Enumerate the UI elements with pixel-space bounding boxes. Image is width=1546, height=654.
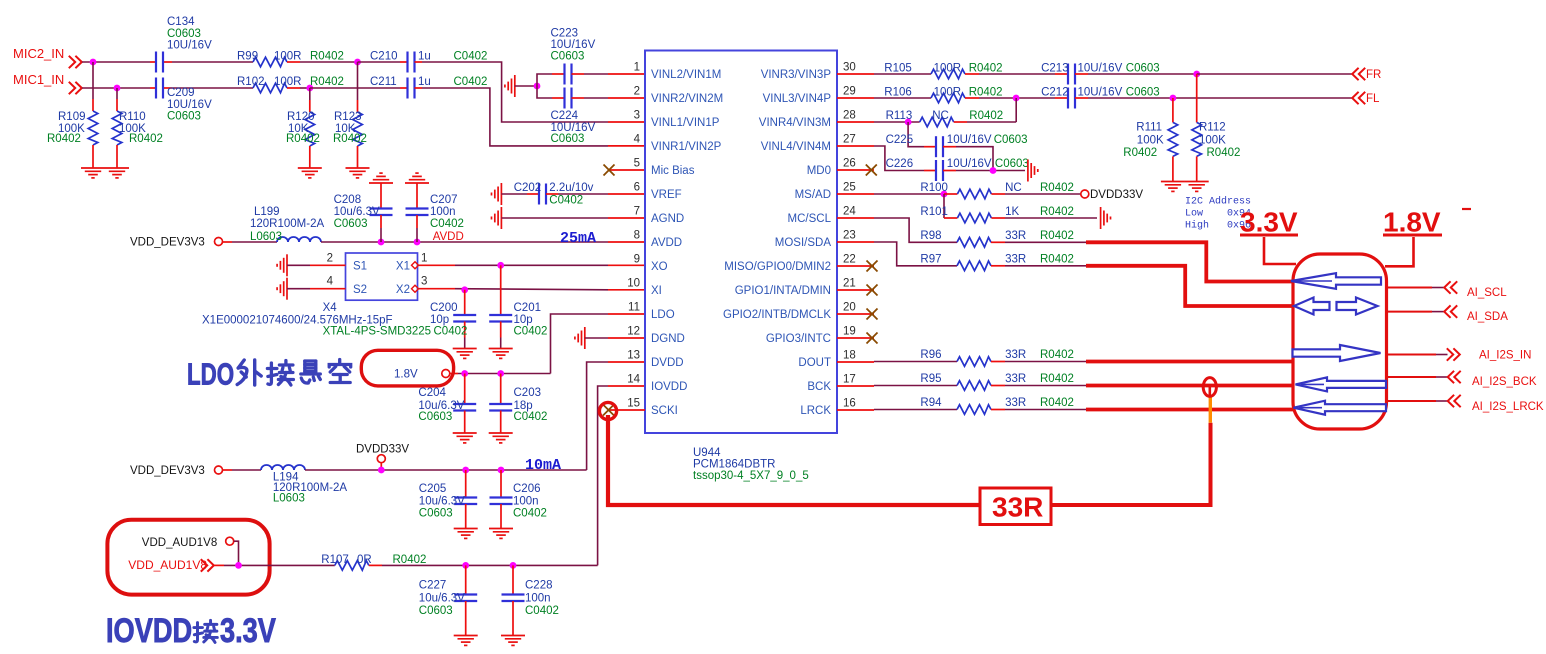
svg-text:R112: R112	[1199, 122, 1226, 134]
ground R101	[1101, 207, 1111, 229]
svg-text:AI_I2S_IN: AI_I2S_IN	[1479, 350, 1531, 362]
wire DVDD rail	[305, 469, 587, 471]
svg-text:30: 30	[843, 62, 856, 74]
svg-text:NC: NC	[932, 110, 949, 122]
resistor 33R callout box	[980, 488, 1051, 525]
svg-text:22: 22	[843, 254, 856, 266]
svg-text:R0402: R0402	[286, 133, 320, 145]
port LDO 1.8V circle	[442, 370, 450, 378]
pin 3 X4	[418, 288, 455, 290]
svg-text:10U/16V: 10U/16V	[167, 99, 212, 111]
ground C228	[501, 636, 525, 646]
svg-text:1K: 1K	[1005, 206, 1019, 218]
svg-text:L0603: L0603	[250, 231, 282, 243]
node XO C201	[497, 262, 504, 269]
svg-text:R97: R97	[920, 254, 941, 266]
svg-text:2.2u/10v: 2.2u/10v	[549, 182, 593, 194]
inductor L194	[261, 465, 305, 470]
leader 3.3V	[1264, 237, 1296, 264]
capacitor C208	[380, 183, 382, 209]
svg-text:C0402: C0402	[430, 218, 464, 230]
svg-text:DVDD33V: DVDD33V	[1090, 189, 1143, 201]
svg-text:C203: C203	[514, 387, 542, 399]
ground R123	[346, 168, 370, 178]
ground R111	[1161, 182, 1185, 192]
svg-text:C223: C223	[551, 28, 579, 40]
capacitor C225	[924, 146, 936, 148]
svg-text:11: 11	[628, 302, 640, 314]
wire VDD to L199	[223, 241, 233, 243]
wire MIC2_IN net	[82, 61, 150, 63]
pin 4 X4	[287, 288, 310, 290]
svg-text:MD0: MD0	[807, 165, 831, 177]
arrow AI_SDA left	[1294, 298, 1330, 315]
svg-text:9: 9	[634, 254, 640, 266]
svg-text:1: 1	[634, 62, 640, 74]
port AI_I2S_LRCK	[1448, 395, 1461, 407]
svg-text:C225: C225	[886, 134, 914, 146]
svg-text:R0402: R0402	[1040, 206, 1074, 218]
svg-text:R0402: R0402	[1123, 147, 1157, 159]
svg-text:3: 3	[634, 110, 640, 122]
svg-text:LDO: LDO	[187, 357, 234, 391]
svg-text:15: 15	[627, 398, 640, 410]
resistor R101	[944, 217, 957, 219]
wire AGND to pin7	[501, 217, 608, 219]
wire XO net	[455, 264, 608, 266]
resistor R97	[957, 261, 991, 271]
svg-text:X1: X1	[396, 261, 410, 273]
svg-text:C204: C204	[418, 387, 446, 399]
svg-text:3.3V: 3.3V	[220, 611, 276, 650]
ground C226	[1028, 160, 1038, 182]
arrow AI_I2S_IN	[1293, 345, 1381, 361]
ground C205	[454, 529, 478, 539]
svg-text:26: 26	[843, 158, 856, 170]
wire AI_I2S_IN out	[1387, 354, 1437, 356]
svg-text:XO: XO	[651, 261, 668, 273]
svg-text:FL: FL	[1366, 93, 1380, 105]
capacitor C224	[537, 86, 552, 98]
svg-text:1u: 1u	[418, 51, 431, 63]
svg-text:1.8V: 1.8V	[394, 369, 418, 381]
svg-text:17: 17	[843, 374, 856, 386]
svg-text:C0603: C0603	[551, 51, 585, 63]
pin 28 VINR4/VIN3M U944	[837, 121, 874, 123]
resistor R102	[253, 83, 287, 93]
svg-text:33R: 33R	[1005, 397, 1026, 409]
wire R113 tap to C225	[908, 122, 924, 147]
pin 19 GPIO3/INTC U944	[837, 337, 874, 339]
svg-text:VINL1/VIN1P: VINL1/VIN1P	[651, 117, 720, 129]
pin 22 MISO/GPIO0/DMIN2 U944	[837, 265, 874, 267]
svg-text:18: 18	[843, 350, 856, 362]
pin 30 VINR3/VIN3P U944	[837, 73, 874, 75]
wire orange segment	[1209, 396, 1212, 423]
node FL junction	[1170, 95, 1177, 102]
capacitor C211	[400, 87, 408, 89]
node IOVDD C228	[510, 562, 517, 569]
svg-text:7: 7	[634, 206, 640, 218]
callout ellipse 1.8V	[361, 350, 453, 386]
svg-text:VINR2/VIN2M: VINR2/VIN2M	[651, 93, 723, 105]
svg-text:21: 21	[843, 278, 856, 290]
wire LDO net	[450, 373, 458, 375]
svg-text:2: 2	[634, 86, 640, 98]
svg-text:27: 27	[843, 134, 856, 146]
svg-text:FR: FR	[1366, 69, 1381, 81]
svg-text:AI_I2S_BCK: AI_I2S_BCK	[1472, 376, 1537, 388]
node MIC2 junction	[90, 59, 97, 66]
ground C203	[489, 433, 513, 443]
svg-text:14: 14	[627, 374, 640, 386]
svg-text:MOSI/SDA: MOSI/SDA	[775, 237, 832, 249]
svg-text:MS/AD: MS/AD	[795, 189, 831, 201]
svg-text:100R: 100R	[934, 87, 962, 99]
wire 33R to BCK net	[1051, 423, 1211, 505]
resistor R100	[944, 193, 957, 195]
wire MIC1_IN net	[82, 87, 150, 89]
no-connect X pin21	[867, 285, 878, 296]
svg-text:DVDD33V: DVDD33V	[356, 444, 409, 456]
svg-text:C0603: C0603	[167, 111, 201, 123]
ground R120	[298, 168, 322, 178]
svg-text:R0402: R0402	[969, 87, 1003, 99]
svg-text:C205: C205	[419, 483, 447, 495]
svg-text:C0402: C0402	[514, 326, 548, 338]
capacitor C227	[465, 565, 467, 594]
node FR junction	[1193, 71, 1200, 78]
svg-text:VINL4/VIN4M: VINL4/VIN4M	[761, 141, 831, 153]
wire SDA thick net	[1086, 266, 1294, 306]
svg-text:DVDD: DVDD	[651, 357, 684, 369]
svg-text:GPIO1/INTA/DMIN: GPIO1/INTA/DMIN	[735, 285, 831, 297]
svg-text:C0402: C0402	[513, 508, 547, 520]
svg-text:33R: 33R	[1005, 230, 1026, 242]
svg-text:3: 3	[421, 276, 427, 288]
ground C207	[405, 173, 429, 183]
node AVDD C208	[378, 239, 385, 246]
arrow AI_I2S_BCK	[1296, 377, 1387, 391]
pin 17 BCK U944	[837, 385, 874, 387]
svg-text:AI_SCL: AI_SCL	[1467, 287, 1507, 299]
svg-text:S1: S1	[353, 261, 367, 273]
svg-text:S2: S2	[353, 284, 367, 296]
svg-text:tssop30-4_5X7_9_0_5: tssop30-4_5X7_9_0_5	[693, 470, 809, 482]
svg-text:AI_I2S_LRCK: AI_I2S_LRCK	[1472, 401, 1544, 413]
ground C204	[453, 433, 477, 443]
node MIC1 junction	[114, 85, 121, 92]
resistor R112	[1196, 74, 1198, 122]
wire pin27 jog	[874, 146, 924, 171]
svg-text:2: 2	[327, 252, 333, 264]
wire FR out	[1197, 73, 1352, 75]
port AI_I2S_IN	[1447, 348, 1460, 360]
svg-text:10u/6.3V: 10u/6.3V	[419, 496, 465, 508]
wire pin23 jog	[874, 242, 957, 266]
no-connect X pin22	[867, 261, 878, 272]
resistor R94	[874, 409, 957, 411]
svg-text:VDD_AUD1V8: VDD_AUD1V8	[142, 537, 217, 549]
pin 2 X4	[287, 264, 310, 266]
svg-text:LRCK: LRCK	[800, 405, 831, 417]
svg-text:33R: 33R	[1005, 373, 1026, 385]
svg-text:25mA: 25mA	[560, 230, 596, 247]
wire VDD to L194	[223, 469, 233, 471]
ground C201	[489, 349, 513, 359]
svg-text:R0402: R0402	[1040, 230, 1074, 242]
ground X4 pin2	[277, 254, 287, 276]
ground C206	[489, 529, 513, 539]
svg-text:1u: 1u	[418, 76, 431, 88]
node AUD1V8 junction	[235, 562, 242, 569]
svg-text:100n: 100n	[513, 496, 539, 508]
svg-text:R95: R95	[920, 373, 941, 385]
svg-text:AGND: AGND	[651, 213, 684, 225]
wire AI_SCL out	[1387, 287, 1433, 289]
svg-text:L199: L199	[254, 206, 280, 218]
capacitor C226	[924, 170, 936, 172]
svg-text:IOVDD: IOVDD	[651, 381, 687, 393]
svg-text:10U/16V: 10U/16V	[947, 158, 992, 170]
ground DGND	[575, 327, 585, 349]
no-connect X pin19	[867, 333, 878, 344]
port FL	[1352, 92, 1365, 104]
svg-text:C0402: C0402	[454, 51, 488, 63]
svg-text:C202: C202	[514, 182, 542, 194]
node LDO C203	[497, 370, 504, 377]
capacitor C202	[501, 193, 527, 195]
svg-text:C206: C206	[513, 483, 541, 495]
svg-text:C0603: C0603	[167, 28, 201, 40]
wire pin24 jog	[874, 218, 931, 242]
svg-text:C228: C228	[525, 580, 553, 592]
svg-text:10u/6.3V: 10u/6.3V	[419, 592, 465, 604]
svg-text:R107: R107	[321, 554, 349, 566]
svg-text:Mic Bias: Mic Bias	[651, 165, 695, 177]
svg-text:C207: C207	[430, 194, 458, 206]
pin 26 MD0 U944	[837, 169, 874, 171]
wire R113 out up to FL	[1015, 98, 1017, 122]
svg-text:MISO/GPIO0/DMIN2: MISO/GPIO0/DMIN2	[724, 261, 831, 273]
wire R96 thick net	[1086, 360, 1294, 364]
svg-text:10: 10	[627, 278, 640, 290]
capacitor C207	[416, 183, 418, 209]
svg-text:R111: R111	[1136, 122, 1162, 134]
svg-text:100n: 100n	[430, 206, 456, 218]
svg-text:C212: C212	[1041, 87, 1069, 99]
svg-text:R99: R99	[237, 51, 258, 63]
node R99 out junction	[354, 59, 361, 66]
callout box AI interface	[1293, 254, 1387, 429]
port AI_I2S_BCK	[1448, 371, 1461, 383]
svg-text:VINR3/VIN3P: VINR3/VIN3P	[761, 69, 832, 81]
svg-text:R0402: R0402	[1207, 147, 1241, 159]
svg-text:BCK: BCK	[807, 381, 831, 393]
resistor R120	[309, 88, 311, 100]
svg-text:13: 13	[627, 350, 640, 362]
svg-text:33R: 33R	[1005, 349, 1026, 361]
arrow AI_SDA right	[1337, 298, 1378, 315]
svg-text:C0603: C0603	[1126, 87, 1160, 99]
inductor L199	[277, 237, 321, 242]
svg-text:L0603: L0603	[273, 493, 305, 505]
wire AI_I2S_BCK out	[1387, 376, 1437, 378]
pin 27 VINL4/VIN4M U944	[837, 145, 874, 147]
svg-text:VREF: VREF	[651, 189, 682, 201]
ground C208	[369, 173, 393, 183]
capacitor C223	[537, 74, 552, 86]
capacitor C204	[464, 374, 466, 405]
node DVDD33V tap	[378, 467, 385, 474]
svg-text:12: 12	[627, 326, 640, 338]
node DVDD C206	[498, 467, 505, 474]
pin 1 X4	[418, 264, 455, 266]
ground C200	[453, 349, 477, 359]
capacitor C206	[500, 470, 502, 498]
svg-text:R0402: R0402	[333, 133, 367, 145]
svg-text:C226: C226	[886, 158, 914, 170]
ground C227	[454, 636, 478, 646]
svg-text:PCM1864DBTR: PCM1864DBTR	[693, 459, 775, 471]
svg-text:10u/6.3V: 10u/6.3V	[334, 206, 380, 218]
resistor R106	[874, 97, 931, 99]
svg-text:U944: U944	[693, 447, 721, 459]
pin 21 GPIO1/INTA/DMIN U944	[837, 289, 874, 291]
leader 1.8V	[1385, 237, 1414, 266]
svg-text:19: 19	[843, 326, 856, 338]
mark red dash	[1462, 208, 1471, 210]
svg-text:R98: R98	[920, 230, 941, 242]
ground VIN common	[505, 75, 515, 97]
svg-text:R0402: R0402	[1040, 349, 1074, 361]
resistor R99	[253, 57, 287, 67]
svg-text:R0402: R0402	[1040, 182, 1074, 194]
capacitor C201	[500, 265, 502, 315]
pin 18 DOUT U944	[837, 361, 874, 363]
port FR	[1352, 68, 1365, 80]
svg-text:R100: R100	[920, 182, 948, 194]
svg-text:R101: R101	[920, 206, 948, 218]
wire AI_I2S_LRCK out	[1387, 400, 1437, 402]
svg-text:MIC1_IN: MIC1_IN	[13, 72, 64, 87]
svg-text:10p: 10p	[430, 314, 449, 326]
svg-text:24: 24	[843, 206, 856, 218]
port AI_SCL	[1444, 281, 1457, 293]
svg-text:10U/16V: 10U/16V	[1078, 87, 1123, 99]
svg-text:25: 25	[843, 182, 856, 194]
node IOVDD C227	[462, 562, 469, 569]
wire C211 to pin4	[422, 88, 608, 146]
svg-text:X2: X2	[396, 284, 410, 296]
svg-text:C0603: C0603	[419, 508, 453, 520]
svg-text:C0603: C0603	[551, 133, 585, 145]
no-connect X pin26	[866, 165, 877, 176]
wire AUD1V8 drop	[234, 541, 239, 565]
svg-text:X4: X4	[323, 302, 338, 314]
svg-text:3.3V: 3.3V	[1240, 207, 1298, 238]
svg-text:XI: XI	[651, 285, 662, 297]
wire R102 to C211	[310, 87, 400, 89]
svg-text:C0603: C0603	[995, 158, 1029, 170]
port AI_SDA	[1444, 305, 1457, 317]
svg-text:C0402: C0402	[549, 195, 583, 207]
crystal X4 box	[346, 253, 418, 300]
svg-text:10U/16V: 10U/16V	[1078, 63, 1123, 75]
svg-text:R0402: R0402	[310, 51, 344, 63]
svg-text:10p: 10p	[514, 314, 533, 326]
wire C210 to pin3	[422, 62, 608, 122]
net-tie bubble BCK	[1203, 378, 1216, 397]
node C225/C226 junction	[990, 167, 997, 174]
pin 24 MC/SCL U944	[837, 217, 874, 219]
node MS/AD junction	[941, 191, 948, 198]
svg-text:C224: C224	[551, 110, 579, 122]
wire R95 thick net	[1086, 384, 1294, 388]
svg-text:R0402: R0402	[1040, 254, 1074, 266]
svg-text:10mA: 10mA	[525, 457, 561, 474]
wire IOVDD to pin14	[598, 386, 608, 565]
svg-text:4: 4	[634, 134, 641, 146]
svg-text:R0402: R0402	[393, 554, 427, 566]
svg-text:VDD_DEV3V3: VDD_DEV3V3	[130, 237, 205, 249]
svg-text:C201: C201	[514, 302, 542, 314]
resistor R123	[357, 62, 359, 100]
svg-text:8: 8	[634, 230, 640, 242]
svg-text:C210: C210	[370, 51, 398, 63]
svg-text:29: 29	[843, 86, 856, 98]
svg-text:C0402: C0402	[434, 326, 468, 338]
svg-text:GPIO2/INTB/DMCLK: GPIO2/INTB/DMCLK	[723, 309, 831, 321]
svg-text:VINL2/VIN1M: VINL2/VIN1M	[651, 69, 721, 81]
wire XI net	[455, 289, 608, 290]
svg-text:C0402: C0402	[525, 605, 559, 617]
ground AGND	[492, 207, 502, 229]
ground R112	[1185, 182, 1209, 192]
node C223/C224 junction	[534, 83, 541, 90]
svg-text:R0402: R0402	[47, 133, 81, 145]
svg-text:100R: 100R	[274, 76, 302, 88]
svg-text:C208: C208	[334, 194, 362, 206]
svg-text:VINR4/VIN3M: VINR4/VIN3M	[759, 117, 831, 129]
capacitor C205	[465, 470, 467, 498]
svg-text:100K: 100K	[1137, 135, 1164, 147]
capacitor C213	[1055, 73, 1068, 75]
arrow AI_I2S_LRCK	[1294, 401, 1387, 415]
svg-text:R102: R102	[237, 76, 265, 88]
no-connect X pin15 SCKI	[608, 409, 645, 411]
svg-text:100n: 100n	[525, 592, 551, 604]
resistor R110	[116, 88, 118, 99]
wire AUD1V8 net	[214, 564, 224, 566]
wire AI_SDA out	[1387, 311, 1433, 313]
resistor R98	[931, 241, 957, 243]
svg-text:120R100M-2A: 120R100M-2A	[250, 218, 324, 230]
svg-text:C134: C134	[167, 16, 195, 28]
svg-text:C211: C211	[370, 76, 397, 88]
node LDO C204	[461, 370, 468, 377]
pin 23 MOSI/SDA U944	[837, 241, 874, 243]
svg-text:C200: C200	[430, 302, 458, 314]
svg-text:VINR1/VIN2P: VINR1/VIN2P	[651, 141, 722, 153]
svg-text:VINL3/VIN4P: VINL3/VIN4P	[763, 93, 832, 105]
svg-text:C0402: C0402	[514, 411, 548, 423]
svg-text:5: 5	[634, 158, 640, 170]
svg-text:R120: R120	[287, 111, 315, 123]
resistor R107	[335, 561, 369, 571]
svg-text:C0402: C0402	[454, 76, 488, 88]
svg-text:VDD_AUD1V8: VDD_AUD1V8	[128, 558, 207, 572]
